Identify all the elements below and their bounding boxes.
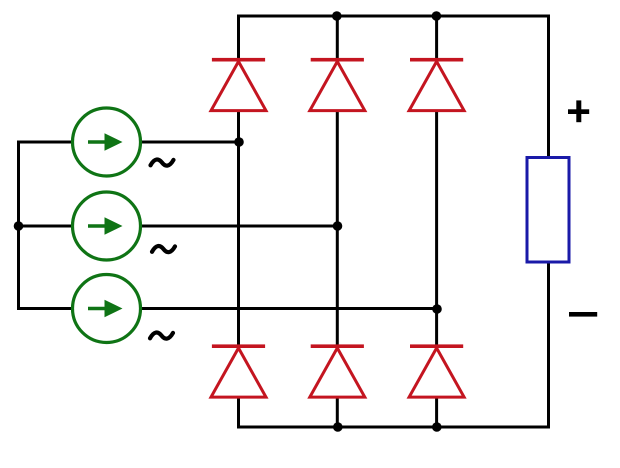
wire: stub to source I2 left (17, 225, 72, 228)
node dot: phase3 / column3 (432, 304, 442, 314)
current source I2 (73, 192, 141, 260)
wire: column2 top stub (336, 16, 339, 59)
diode D4 (bottom, column1) (211, 344, 266, 397)
wire: column3 middle segment (435, 110, 438, 346)
wire: phase 2 from source I2 to column2 (141, 225, 338, 228)
wire: column3 top stub (435, 16, 438, 59)
diode D2 (bottom, column3) (409, 344, 464, 397)
AC tilde label 1 (151, 160, 174, 166)
wire: column3 bottom stub (435, 397, 438, 426)
resistor R load (527, 158, 569, 263)
node dot: top bus / column3 (432, 11, 442, 21)
node dot: bottom bus / column3 (432, 422, 442, 432)
node dot: phase1 / column1 (234, 137, 244, 147)
diode D6 (bottom, column2) (310, 344, 365, 397)
node dot: phase2 / column2 (333, 221, 343, 231)
wire: stub to source I1 left (17, 141, 72, 144)
current source I3 (73, 275, 141, 343)
wire: column2 middle segment (336, 110, 339, 346)
node dot: bottom bus / column2 (333, 422, 343, 432)
wire: column2 bottom stub (336, 397, 339, 426)
current source I1 (73, 108, 141, 176)
wire: column1 middle segment (237, 110, 240, 346)
wire: bottom DC- bus from column1 down, across, up to load bottom (239, 263, 549, 427)
wire: top DC+ bus from column1 up, across, down to load top (239, 16, 549, 157)
plus label (568, 100, 589, 122)
wire: phase 3 from source I3 to column3 (141, 307, 437, 310)
diode D3 (top, column2) (310, 58, 365, 111)
AC tilde label 2 (152, 246, 175, 252)
node dot: top bus / column2 (332, 11, 342, 21)
AC tilde label 3 (150, 333, 173, 339)
diode D5 (top, column3) (409, 58, 464, 111)
diode D1 (top, column1) (211, 58, 266, 111)
wire: left neutral bus vertical (17, 142, 20, 309)
wire: phase 1 from source I1 to column1 (141, 141, 240, 144)
minus label (569, 312, 597, 317)
node dot: left bus / phase2 (14, 221, 24, 231)
wire: stub to source I3 left (17, 307, 72, 310)
